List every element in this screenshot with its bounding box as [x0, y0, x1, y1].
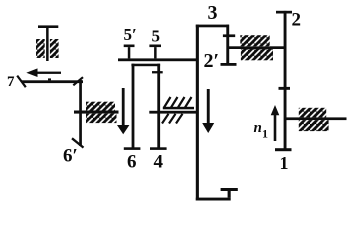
- bottom cap of shaft 4: [150, 147, 167, 150]
- cap of bottom stub: [221, 188, 238, 191]
- svg-text:2: 2: [292, 10, 302, 31]
- gear 4 top hatch slashes: [164, 97, 192, 108]
- carrier 3 bottom arm: [196, 198, 231, 201]
- svg-text:1: 1: [280, 153, 289, 173]
- svg-text:5: 5: [152, 27, 161, 46]
- cross tick on top stub: [223, 34, 235, 37]
- shaft 6 vertical: [132, 64, 135, 148]
- gear on horizontal shaft hatched block (top): [299, 108, 326, 118]
- gear 4 top hatch base bar: [163, 107, 194, 110]
- shaft 5-5' horizontal line: [118, 58, 197, 61]
- bottom cap of shaft 1: [275, 148, 292, 151]
- gear 5 T stub: [149, 45, 161, 48]
- rotation arrow of shaft 7 (left): [35, 72, 61, 74]
- gear 6' mid line: [74, 111, 119, 114]
- shaft 2-1 vertical: [284, 11, 287, 151]
- gear 6' bottom hatched block: [86, 114, 117, 124]
- down arrow between gear 6' and shaft 6: [122, 88, 125, 127]
- svg-text:1: 1: [262, 127, 268, 141]
- gear 7 vertical shaft stem: [46, 27, 49, 61]
- tick at junction of shaft 7 and shaft 6': [73, 77, 83, 85]
- gear 7 right hatched half: [50, 39, 59, 58]
- gear 2'-2 axis line: [227, 46, 285, 49]
- gear 2 hatched block (bottom): [241, 49, 273, 60]
- bottom cap of top stub: [221, 63, 237, 66]
- gear 4 axis line: [149, 111, 196, 114]
- gear 1 hatched block (bottom): [299, 120, 329, 131]
- bottom cap of shaft 6: [124, 147, 141, 150]
- cross tick on shaft 4 below yoke: [152, 71, 163, 73]
- svg-text:3: 3: [208, 2, 218, 24]
- svg-text:4: 4: [154, 152, 164, 173]
- gear 2' hatched block (top): [240, 35, 269, 46]
- yoke joining shafts 6 and 4: [131, 64, 160, 66]
- gear 6' top hatched block: [86, 102, 115, 111]
- tick at bottom of shaft 6': [72, 138, 84, 147]
- carrier 3 top stub vertical: [226, 25, 229, 64]
- svg-text:6′: 6′: [63, 146, 78, 167]
- carrier 3 bottom stub vertical: [228, 188, 231, 198]
- svg-text:n: n: [254, 120, 262, 136]
- gear 4 bottom hatch slashes: [162, 114, 183, 124]
- gear 5' T stub: [124, 45, 135, 48]
- shaft 6' vertical: [79, 80, 82, 146]
- carrier 3 top arm: [196, 25, 229, 28]
- ink nub above shaft 7 line: [48, 78, 51, 80]
- svg-text:7: 7: [7, 74, 15, 90]
- tick at left end of shaft 7: [17, 76, 26, 88]
- gear 1 axis line: [285, 117, 347, 120]
- svg-text:5′: 5′: [124, 25, 137, 44]
- svg-text:6: 6: [127, 152, 137, 173]
- gear 7 shaft top cap: [38, 25, 58, 28]
- collar tick on shaft: [279, 87, 291, 90]
- carrier 3 left vertical: [196, 25, 199, 201]
- down arrow inside carrier: [207, 89, 210, 124]
- top cap of shaft 2: [276, 11, 292, 14]
- svg-text:2′: 2′: [204, 50, 220, 72]
- shaft 7 horizontal line: [22, 80, 84, 83]
- shaft 4 vertical: [157, 64, 160, 148]
- up arrow n1: [274, 114, 277, 141]
- gear 7 left hatched half: [36, 39, 45, 58]
